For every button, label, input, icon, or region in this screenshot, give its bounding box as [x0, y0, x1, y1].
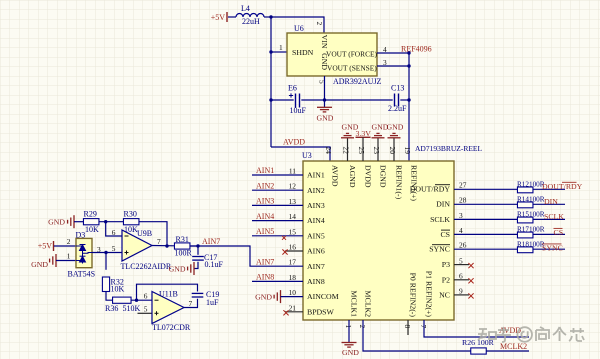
svg-text:CS: CS — [554, 228, 564, 237]
junction C13 bus — [407, 98, 410, 101]
wire to U6 SHDN pin 1 — [271, 51, 287, 53]
wire U6 pin 4 out — [377, 52, 409, 54]
svg-text:27: 27 — [459, 181, 467, 190]
svg-text:AIN5: AIN5 — [256, 227, 274, 236]
wire R12 to net DOUT/RDY — [533, 188, 565, 190]
wire +5V to L4 — [228, 16, 236, 18]
svg-text:AIN1: AIN1 — [256, 166, 274, 175]
svg-text:GND: GND — [342, 348, 359, 357]
svg-text:7: 7 — [189, 299, 193, 308]
svg-text:P0 REFIN2(-): P0 REFIN2(-) — [409, 273, 418, 318]
wire E6 to C13 — [301, 99, 392, 101]
svg-text:AIN7: AIN7 — [202, 237, 220, 246]
svg-text:4: 4 — [459, 226, 463, 235]
svg-text:14: 14 — [289, 212, 297, 221]
op-amp U9B — [122, 230, 152, 261]
svg-text:DVDD: DVDD — [364, 165, 373, 188]
pin stub BPDSW 21 — [285, 311, 303, 313]
svg-text:6: 6 — [112, 228, 116, 237]
wire MCLK1 to ground — [348, 320, 350, 343]
svg-text:10uF: 10uF — [290, 106, 307, 115]
svg-text:1: 1 — [67, 252, 71, 261]
svg-text:28: 28 — [459, 196, 467, 205]
svg-text:AIN2: AIN2 — [307, 186, 325, 195]
svg-text:TLC2262AIDR: TLC2262AIDR — [121, 262, 172, 271]
svg-text:20: 20 — [388, 147, 397, 155]
svg-text:AIN7: AIN7 — [307, 262, 325, 271]
svg-text:MCLK1: MCLK1 — [350, 291, 359, 318]
junction REF4096 corner — [407, 51, 410, 54]
svg-text:R30: R30 — [124, 210, 137, 219]
svg-text:2.2uF: 2.2uF — [388, 104, 407, 113]
svg-text:R36: R36 — [105, 304, 118, 313]
resistor R29 10K — [83, 219, 99, 225]
wire C17 to ground — [195, 262, 199, 269]
svg-text:SCLK: SCLK — [544, 212, 564, 221]
svg-text:DGND: DGND — [379, 165, 388, 188]
no-ERC mark pin 9 — [468, 293, 473, 298]
svg-text:MCLK2: MCLK2 — [500, 342, 527, 351]
svg-text:AVDD: AVDD — [331, 165, 340, 187]
svg-text:VOUT (FORCE): VOUT (FORCE) — [326, 50, 378, 59]
svg-text:AIN6: AIN6 — [307, 247, 325, 256]
resistor R12 100R — [517, 187, 533, 193]
junction cap bus tap — [269, 98, 272, 101]
svg-text:GND: GND — [169, 264, 186, 273]
wire R18 to net SYNC — [533, 248, 565, 250]
svg-text:C13: C13 — [391, 84, 404, 93]
wire junction to opamp pin 6 — [106, 222, 122, 236]
capacitor C19 1uF — [192, 293, 204, 297]
capacitor E6 10uF — [296, 94, 300, 108]
svg-text:3.3V: 3.3V — [356, 129, 372, 138]
wire R30 feedback to output — [139, 222, 167, 246]
svg-text:D3: D3 — [76, 231, 86, 240]
svg-text:10: 10 — [289, 288, 297, 297]
svg-text:15: 15 — [289, 227, 297, 236]
wire AVDD to pin 24 — [271, 147, 330, 161]
ground at AINCOM — [274, 290, 280, 303]
wire U9B output — [152, 245, 175, 247]
svg-text:21: 21 — [289, 303, 297, 312]
svg-text:NC: NC — [439, 291, 450, 300]
pin wire DVDD 25 — [362, 137, 364, 161]
svg-text:REF4096: REF4096 — [401, 45, 432, 54]
svg-text:R15100R: R15100R — [517, 211, 545, 219]
svg-text:P3: P3 — [442, 260, 450, 269]
no-ERC mark pin 16 — [282, 249, 287, 254]
pin wire REFIN1- 20 — [393, 138, 395, 161]
svg-text:24: 24 — [324, 147, 333, 155]
svg-text:22uH: 22uH — [242, 17, 260, 26]
wire +5V to D3 pin 2 — [54, 245, 76, 247]
ground at C17 — [188, 262, 194, 275]
svg-text:510K: 510K — [123, 304, 141, 313]
svg-text:BPDSW: BPDSW — [307, 307, 335, 316]
svg-text:TL072CDR: TL072CDR — [152, 323, 191, 332]
svg-text:R17100R: R17100R — [517, 226, 545, 234]
wire MCLK2 down and right — [363, 320, 471, 351]
svg-text:AIN4: AIN4 — [256, 212, 274, 221]
svg-text:AIN8: AIN8 — [307, 277, 325, 286]
svg-text:+5V: +5V — [38, 242, 53, 251]
svg-text:VIN: VIN — [320, 35, 329, 49]
svg-text:18: 18 — [289, 273, 297, 282]
svg-text:SYNC: SYNC — [542, 243, 563, 252]
svg-text:P2: P2 — [442, 275, 450, 284]
svg-text:MCLK2: MCLK2 — [364, 291, 373, 318]
junction SHDN tap — [269, 50, 272, 53]
pin wire DGND 23 — [377, 138, 379, 161]
svg-text:REFIN1(-): REFIN1(-) — [395, 165, 404, 200]
svg-text:13: 13 — [289, 197, 297, 206]
svg-text:GND: GND — [387, 123, 404, 132]
svg-text:VOUT (SENSE): VOUT (SENSE) — [327, 64, 377, 73]
svg-text:11: 11 — [289, 167, 296, 176]
watermark zhihu — [478, 327, 584, 342]
resistor R26 100R — [471, 348, 487, 354]
ground above pin 22 — [341, 133, 354, 137]
wire R32 to R36 — [106, 292, 113, 301]
pin stub 5 — [454, 264, 469, 266]
pin wire AGND 22 — [347, 138, 349, 161]
pin stub 6 — [454, 279, 469, 281]
svg-text:AGND: AGND — [348, 165, 357, 188]
svg-text:DIN: DIN — [544, 197, 558, 206]
pin stub 9 — [454, 294, 469, 296]
no-ERC mark pin 5 — [468, 263, 473, 268]
regulator U6 body — [287, 33, 377, 76]
wire D3 pin 3 to opamp pin 5 — [92, 252, 122, 254]
diode symbols inside D3 — [76, 245, 92, 264]
no-ERC mark pin 15 — [282, 236, 286, 240]
svg-text:AIN7: AIN7 — [256, 257, 274, 266]
wire net AIN7 to pin 17 — [190, 246, 303, 266]
wire to gnd symbol — [324, 100, 326, 107]
svg-text:5: 5 — [459, 256, 463, 265]
wire U3 to R15 — [454, 218, 517, 220]
svg-text:R18100R: R18100R — [517, 240, 545, 248]
svg-text:REFIN1(+): REFIN1(+) — [410, 165, 419, 201]
svg-text:2: 2 — [67, 237, 71, 246]
wire R31 to junction — [190, 245, 198, 247]
wire net AIN1 — [252, 174, 303, 176]
svg-text:6: 6 — [144, 292, 148, 301]
ground under MCLK1 — [342, 343, 357, 348]
wire net AIN4 — [252, 220, 303, 222]
pin stub U11B pin 5 — [138, 312, 153, 314]
svg-text:26: 26 — [459, 241, 467, 250]
svg-text:AIN3: AIN3 — [256, 197, 274, 206]
svg-text:1uF: 1uF — [206, 298, 219, 307]
wire REF4096 vertical to REFIN1(+) — [408, 53, 410, 161]
svg-text:9: 9 — [459, 287, 463, 296]
wire U3 to R18 — [454, 248, 517, 250]
resistor R31 100R — [174, 243, 190, 249]
wire R36 to U11B pin 6 — [131, 299, 152, 301]
svg-text:BAT54S: BAT54S — [68, 270, 96, 279]
svg-text:AD7193BRUZ-REEL: AD7193BRUZ-REEL — [415, 144, 482, 153]
junction C19 feedback tap — [135, 299, 138, 302]
svg-text:AVDD: AVDD — [283, 138, 305, 147]
wire net AIN8 — [252, 280, 303, 282]
svg-text:23: 23 — [372, 147, 381, 155]
resistor R17 100R — [517, 232, 533, 238]
svg-text:100R: 100R — [175, 249, 193, 258]
svg-text:AIN1: AIN1 — [307, 171, 325, 180]
junction R32 tap — [104, 251, 107, 254]
ground at R29 — [68, 215, 74, 228]
junction pin3 to vertical — [407, 64, 410, 67]
svg-text:E6: E6 — [288, 84, 297, 93]
svg-text:DIN: DIN — [436, 200, 450, 209]
svg-text:16: 16 — [289, 243, 297, 252]
wire U6 pin 3 — [377, 65, 409, 67]
svg-text:5: 5 — [112, 244, 116, 253]
svg-text:U11B: U11B — [159, 290, 178, 299]
svg-text:10K: 10K — [85, 225, 99, 234]
wire R15 to net SCLK — [533, 218, 565, 220]
svg-text:SHDN: SHDN — [292, 48, 314, 57]
pin stub P0 REFIN2- 8 — [407, 320, 409, 335]
svg-text:AINCOM: AINCOM — [307, 292, 339, 301]
wire R29 to R30 — [99, 221, 124, 223]
svg-text:DOUT/RDY: DOUT/RDY — [542, 182, 583, 191]
svg-text:R31: R31 — [176, 235, 189, 244]
resistor R30 10K — [123, 219, 139, 225]
svg-text:19: 19 — [403, 147, 412, 155]
wire net AIN2 — [252, 189, 303, 191]
svg-text:+5V: +5V — [211, 13, 226, 22]
wire U3 to R14 — [454, 203, 517, 205]
wire vertical +5V rail left — [270, 17, 272, 147]
svg-text:U6: U6 — [294, 24, 304, 33]
junction C17 tap — [196, 244, 199, 247]
svg-text:AIN4: AIN4 — [307, 216, 325, 225]
svg-text:AIN5: AIN5 — [307, 231, 325, 240]
junction R29 R30 tap — [104, 220, 107, 223]
junction feedback output — [165, 244, 168, 247]
svg-text:GND: GND — [31, 260, 48, 269]
svg-text:R29: R29 — [84, 210, 97, 219]
svg-text:3: 3 — [459, 211, 463, 220]
junction U6 gnd tap — [323, 98, 326, 101]
svg-text:22: 22 — [342, 147, 351, 155]
wire R14 to net DIN — [533, 203, 565, 205]
wire ground to D3 pin 1 — [56, 260, 76, 262]
wire junction to R32 — [105, 253, 107, 270]
svg-text:AIN8: AIN8 — [256, 273, 274, 282]
resistor R15 100R — [517, 217, 533, 223]
no-ERC mark pin 6 — [468, 278, 473, 283]
wire AINCOM to ground — [281, 296, 304, 298]
capacitor C17 0.1uF — [192, 257, 204, 261]
wire to U6 VIN pin 2 — [271, 17, 324, 33]
ground above pin 23 — [372, 133, 385, 137]
wire bus to E6 — [271, 99, 294, 101]
wire R26 to net MCLK2 — [486, 350, 529, 352]
svg-text:AIN3: AIN3 — [307, 201, 325, 210]
wire U3 to R12 — [454, 188, 517, 190]
wire net AIN3 — [252, 204, 303, 206]
pin stub AIN6 16 — [285, 250, 303, 252]
IC U3 AD7193 body — [303, 161, 454, 320]
svg-text:U9B: U9B — [137, 229, 152, 238]
wire U3 to R17 — [454, 233, 517, 235]
ground at D3 pin 1 — [50, 254, 56, 267]
ground above pin 20 — [388, 133, 401, 137]
capacitor C13 2.2uF — [395, 94, 399, 107]
wire junction to C17 — [197, 246, 199, 255]
svg-text:1: 1 — [279, 43, 283, 52]
wire ground to R29 — [74, 221, 83, 223]
svg-text:SYNC: SYNC — [429, 245, 450, 254]
diode D3 BAT54S body — [76, 238, 92, 267]
svg-text:P1 REFIN2(+): P1 REFIN2(+) — [425, 271, 434, 318]
svg-text:GND: GND — [255, 292, 272, 301]
svg-text:U3: U3 — [302, 151, 312, 160]
wire feedback to C19 — [137, 284, 198, 300]
power port +5V (top) — [226, 12, 228, 22]
svg-text:R12100R: R12100R — [517, 180, 545, 188]
svg-text:10K: 10K — [111, 285, 125, 294]
resistor R36 510K — [113, 297, 132, 303]
ground under U6 — [317, 107, 332, 112]
svg-text:5: 5 — [318, 80, 327, 84]
svg-text:7: 7 — [157, 237, 161, 246]
resistor R14 100R — [517, 202, 533, 208]
svg-text:ADR392AUJZ: ADR392AUJZ — [333, 77, 382, 86]
svg-text:GND: GND — [317, 114, 334, 123]
svg-text:25: 25 — [357, 147, 366, 155]
svg-text:2: 2 — [315, 22, 324, 26]
svg-text:17: 17 — [289, 258, 297, 267]
svg-text:CS: CS — [440, 230, 450, 239]
op-amp U11B — [152, 292, 184, 324]
junction node +5V rail — [269, 15, 272, 18]
power port 3.3V — [356, 136, 371, 138]
wire R17 to net CS — [533, 233, 565, 235]
resistor R18 100R — [517, 247, 533, 253]
wire C13 to vertical — [400, 99, 409, 101]
wire C19 to U11B output — [184, 299, 198, 308]
wire net AIN5 — [252, 235, 303, 237]
svg-text:GND: GND — [48, 217, 65, 226]
wire P1 REFIN2+ to AVDD — [424, 320, 529, 337]
svg-text:R14100R: R14100R — [517, 195, 545, 203]
svg-text:5: 5 — [144, 305, 148, 314]
wire L4 to node — [264, 16, 271, 18]
svg-text:AIN2: AIN2 — [256, 181, 274, 190]
power port +5V (D3) — [53, 241, 55, 251]
svg-text:12: 12 — [289, 182, 297, 191]
svg-text:6: 6 — [459, 272, 463, 281]
svg-text:L4: L4 — [241, 4, 250, 13]
inductor L4 — [236, 14, 264, 18]
svg-text:0.1uF: 0.1uF — [205, 260, 224, 269]
wire U6 pin 5 down — [324, 76, 326, 100]
no-ERC mark pin 21 — [283, 310, 288, 315]
svg-text:SCLK: SCLK — [430, 215, 450, 224]
